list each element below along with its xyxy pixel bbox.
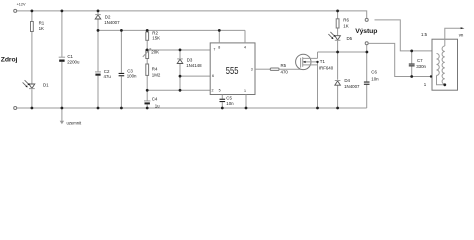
svg-text:T1: T1 xyxy=(320,59,326,64)
svg-text:6: 6 xyxy=(212,74,214,78)
svg-text:10n: 10n xyxy=(371,77,379,82)
svg-text:1K: 1K xyxy=(39,26,44,31)
svg-text:1u: 1u xyxy=(155,103,160,108)
svg-text:C7: C7 xyxy=(417,58,423,63)
svg-text:IRF640: IRF640 xyxy=(319,65,334,70)
svg-text:2200u: 2200u xyxy=(67,59,80,64)
svg-text:555: 555 xyxy=(226,66,239,77)
svg-text:1N4148: 1N4148 xyxy=(186,63,202,68)
svg-text:5: 5 xyxy=(219,89,221,93)
svg-text:47u: 47u xyxy=(104,74,112,79)
svg-text:D1: D1 xyxy=(43,83,49,88)
svg-text:D3: D3 xyxy=(187,57,193,62)
svg-text:1M2: 1M2 xyxy=(152,72,161,77)
svg-text:7: 7 xyxy=(213,48,215,52)
svg-text:C5: C5 xyxy=(226,96,232,101)
svg-text:8: 8 xyxy=(218,46,220,50)
svg-text:1K: 1K xyxy=(343,23,348,28)
svg-text:R4: R4 xyxy=(152,67,158,72)
svg-text:1N4007: 1N4007 xyxy=(104,20,120,25)
svg-text:1:5: 1:5 xyxy=(421,32,428,37)
svg-text:1N4007: 1N4007 xyxy=(344,84,360,89)
svg-text:C4: C4 xyxy=(152,97,158,102)
svg-text:Zdroj: Zdroj xyxy=(1,56,18,63)
svg-text:100n: 100n xyxy=(127,73,137,78)
svg-text:R2: R2 xyxy=(152,30,158,35)
svg-text:D5: D5 xyxy=(347,36,353,41)
svg-text:uzemnit: uzemnit xyxy=(67,120,82,125)
svg-text:+12V: +12V xyxy=(17,2,26,6)
svg-text:10n: 10n xyxy=(226,101,234,106)
svg-text:2: 2 xyxy=(212,89,214,93)
svg-text:C6: C6 xyxy=(371,70,377,75)
svg-text:R5: R5 xyxy=(281,63,287,68)
svg-text:20K: 20K xyxy=(151,49,159,54)
svg-text:C2: C2 xyxy=(104,69,110,74)
svg-text:330n: 330n xyxy=(416,64,426,69)
svg-text:1: 1 xyxy=(244,89,246,93)
svg-text:D4: D4 xyxy=(344,78,350,83)
svg-text:R6: R6 xyxy=(343,18,349,23)
svg-text:3: 3 xyxy=(251,68,253,72)
svg-text:1: 1 xyxy=(424,82,427,87)
svg-text:vn: vn xyxy=(459,33,464,38)
svg-text:R1: R1 xyxy=(39,21,45,26)
svg-text:15K: 15K xyxy=(152,36,160,41)
svg-text:D2: D2 xyxy=(105,15,111,20)
svg-text:C1: C1 xyxy=(67,54,73,59)
svg-text:4: 4 xyxy=(244,46,246,50)
svg-text:Výstup: Výstup xyxy=(355,28,377,35)
svg-text:470: 470 xyxy=(281,69,289,74)
